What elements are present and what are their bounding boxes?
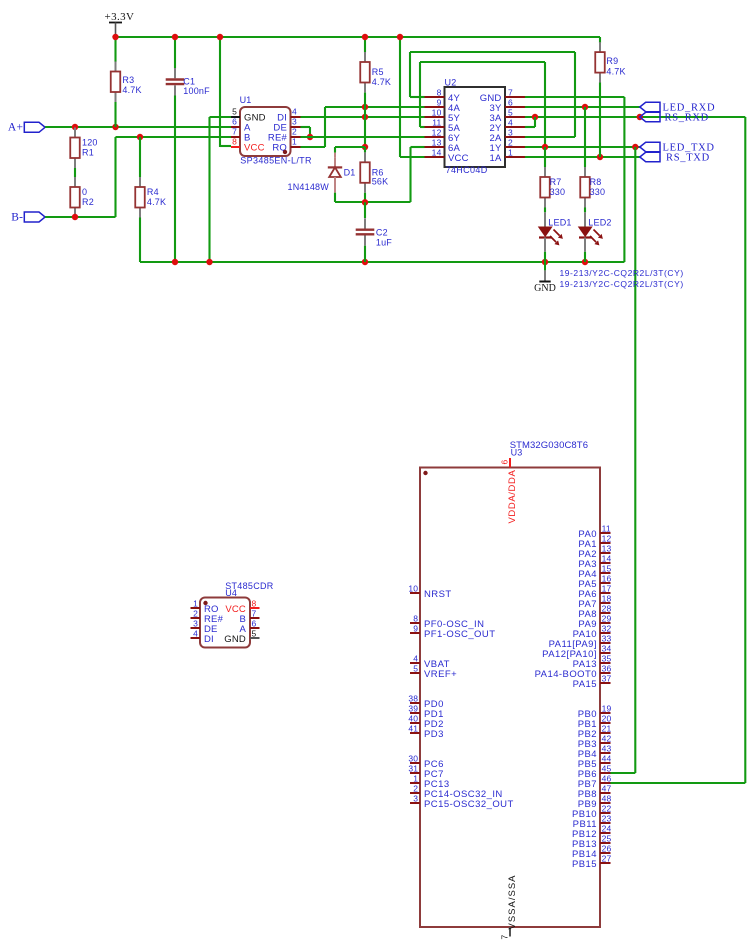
- svg-text:21: 21: [602, 723, 612, 733]
- global label RS_RXD: [640, 112, 709, 123]
- svg-text:5: 5: [413, 663, 418, 673]
- svg-text:4: 4: [193, 628, 198, 638]
- op-amp U1 SP3485EN-L/TR: [231, 95, 312, 165]
- wire LED_TXD drop: [634, 147, 636, 773]
- svg-text:45: 45: [602, 763, 612, 773]
- svg-text:35: 35: [602, 653, 612, 663]
- junction C1 ground: [172, 259, 178, 265]
- svg-text:1: 1: [413, 773, 418, 783]
- svg-text:0: 0: [82, 187, 87, 197]
- svg-text:PC15-OSC32_OUT: PC15-OSC32_OUT: [424, 799, 514, 810]
- svg-text:18: 18: [602, 593, 612, 603]
- svg-text:13: 13: [432, 138, 442, 148]
- svg-text:29: 29: [602, 613, 612, 623]
- svg-text:LED2: LED2: [588, 217, 611, 227]
- svg-text:RS_RXD: RS_RXD: [665, 113, 709, 124]
- junction LED2 ground: [582, 259, 588, 265]
- wire R4 bottom: [139, 218, 141, 263]
- svg-text:48: 48: [602, 793, 612, 803]
- wire D1 top lead: [334, 147, 336, 153]
- capacitor C1 100nF: [166, 68, 210, 96]
- svg-text:NRST: NRST: [424, 589, 452, 600]
- svg-text:1N4148W: 1N4148W: [288, 182, 330, 192]
- svg-text:6: 6: [252, 618, 257, 628]
- svg-text:30: 30: [408, 753, 418, 763]
- svg-text:23: 23: [602, 813, 612, 823]
- svg-text:37: 37: [602, 673, 612, 683]
- junction U1 VCC column: [217, 34, 223, 40]
- junction +3.3V: [112, 34, 118, 40]
- wire GND7 drop: [623, 97, 625, 262]
- power symbol +3.3V: [105, 11, 135, 37]
- ground: [534, 262, 556, 294]
- wire RC to 6A riser: [409, 147, 411, 202]
- LED LED1: [539, 212, 572, 252]
- svg-text:24: 24: [602, 823, 612, 833]
- junction R9 bottom: [597, 154, 603, 160]
- wire 2A row: [525, 136, 575, 138]
- svg-text:10: 10: [408, 583, 418, 593]
- IC U4 ST485CDR: [191, 581, 274, 647]
- junction LED_TXD tap: [632, 144, 638, 150]
- wire U1 VCC riser: [219, 37, 221, 147]
- svg-text:4.7K: 4.7K: [372, 77, 391, 87]
- svg-text:19-213/Y2C-CQ2R2L/3T(CY): 19-213/Y2C-CQ2R2L/3T(CY): [560, 279, 684, 289]
- wire R9 top: [599, 37, 601, 43]
- wire D1 branch: [335, 146, 365, 148]
- wire RQ out: [301, 146, 326, 148]
- svg-text:VDDA/DDA: VDDA/DDA: [507, 470, 518, 524]
- svg-text:3: 3: [413, 793, 418, 803]
- wire 1Y drop: [544, 62, 546, 147]
- wire 3A RS_RXD row: [525, 116, 745, 118]
- svg-text:19-213/Y2C-CQ2R2L/3T(CY): 19-213/Y2C-CQ2R2L/3T(CY): [560, 268, 684, 278]
- svg-text:40: 40: [408, 713, 418, 723]
- resistor R8 330: [580, 167, 605, 208]
- junction 2Y-3A: [532, 114, 538, 120]
- junction node 365-117: [362, 114, 368, 120]
- svg-text:25: 25: [602, 833, 612, 843]
- resistor R4 4.7K: [135, 177, 166, 218]
- svg-text:C2: C2: [376, 228, 388, 238]
- wire 4Y out: [410, 96, 425, 98]
- svg-text:6: 6: [500, 460, 510, 465]
- wire DE down link b: [309, 127, 311, 137]
- svg-text:GND: GND: [534, 283, 556, 294]
- wire 5A out: [420, 126, 425, 128]
- wire 5A top row: [420, 61, 545, 63]
- junction U2 VCC column: [397, 34, 403, 40]
- wire GND7 row: [525, 96, 624, 98]
- svg-text:8: 8: [232, 137, 237, 147]
- svg-text:4.7K: 4.7K: [606, 66, 625, 76]
- wire D1 bottom link: [334, 193, 336, 202]
- svg-text:VSSA/SSA: VSSA/SSA: [507, 875, 518, 930]
- svg-text:3: 3: [508, 128, 513, 138]
- wire R5 bottom lead: [364, 93, 366, 107]
- svg-text:15: 15: [602, 563, 612, 573]
- svg-text:R7: R7: [550, 177, 562, 187]
- svg-text:2: 2: [292, 127, 297, 137]
- svg-text:4: 4: [413, 653, 418, 663]
- global label LED_RXD: [640, 102, 715, 113]
- global label RS_TXD: [640, 152, 710, 163]
- svg-text:28: 28: [602, 603, 612, 613]
- svg-text:5: 5: [508, 108, 513, 118]
- wire 3Y LED_RXD row: [525, 106, 640, 108]
- svg-text:13: 13: [602, 543, 612, 553]
- svg-text:8: 8: [413, 613, 418, 623]
- junction R4 top: [137, 134, 143, 140]
- svg-text:PB15: PB15: [572, 859, 597, 870]
- svg-text:7: 7: [500, 935, 510, 940]
- svg-text:120: 120: [82, 137, 98, 147]
- svg-text:32: 32: [602, 623, 612, 633]
- wire 4Y riser: [409, 52, 411, 97]
- wire R5 top: [364, 37, 366, 52]
- wire A+ to U1 A: [45, 126, 231, 128]
- svg-text:VCC: VCC: [244, 143, 265, 154]
- svg-text:47: 47: [602, 783, 612, 793]
- wire 2A drop: [574, 52, 576, 137]
- wire 2Y link b: [534, 117, 536, 127]
- resistor R7 330: [540, 167, 565, 208]
- wire ground rail: [140, 261, 624, 263]
- junction R1 top: [72, 124, 78, 130]
- svg-text:R8: R8: [590, 177, 602, 187]
- capacitor C2 1uF: [356, 218, 393, 247]
- svg-text:RS_TXD: RS_TXD: [666, 153, 710, 164]
- wire 5A riser: [419, 62, 421, 127]
- wire U1 VCC stub link: [220, 145, 231, 147]
- wire B row to U1: [116, 136, 232, 138]
- svg-text:6: 6: [508, 98, 513, 108]
- svg-text:56K: 56K: [372, 176, 389, 186]
- wire R3 top: [114, 37, 116, 62]
- svg-text:R4: R4: [147, 187, 159, 197]
- svg-text:330: 330: [550, 187, 566, 197]
- svg-text:LED1: LED1: [548, 217, 571, 227]
- wire node column: [364, 107, 366, 147]
- svg-text:5: 5: [232, 107, 237, 117]
- svg-text:11: 11: [432, 118, 441, 128]
- svg-text:27: 27: [602, 853, 612, 863]
- svg-text:7: 7: [232, 127, 237, 137]
- svg-text:DI: DI: [204, 634, 214, 645]
- svg-text:42: 42: [602, 733, 612, 743]
- svg-text:U1: U1: [240, 95, 252, 105]
- svg-text:33: 33: [602, 633, 612, 643]
- svg-text:74HC04D: 74HC04D: [446, 165, 488, 175]
- svg-text:7: 7: [252, 608, 257, 618]
- IC U2 74HC04D: [425, 77, 526, 175]
- svg-text:39: 39: [408, 703, 418, 713]
- svg-text:U4: U4: [225, 588, 237, 598]
- wire RC node row: [335, 201, 411, 203]
- svg-text:41: 41: [408, 723, 418, 733]
- svg-text:R1: R1: [82, 147, 94, 157]
- wire R7-LED1 link: [544, 208, 546, 213]
- wire C1 top: [174, 37, 176, 68]
- svg-text:A+: A+: [8, 122, 23, 134]
- resistor R3 4.7K: [111, 62, 142, 103]
- wire R4 top lead: [139, 137, 141, 177]
- svg-text:8: 8: [437, 88, 442, 98]
- svg-text:330: 330: [590, 187, 606, 197]
- svg-text:31: 31: [408, 763, 418, 773]
- svg-text:20: 20: [602, 713, 612, 723]
- global label B-: [11, 212, 45, 224]
- svg-text:U3: U3: [511, 447, 523, 457]
- junction R2 bottom: [72, 214, 78, 220]
- junction R3 bottom: [112, 124, 118, 130]
- svg-text:4.7K: 4.7K: [122, 85, 141, 95]
- junction RC node: [362, 199, 368, 205]
- svg-text:9: 9: [413, 623, 418, 633]
- svg-text:10: 10: [432, 108, 442, 118]
- wire 1Y LED_TXD row: [525, 146, 640, 148]
- wire LED1 cathode: [544, 252, 546, 262]
- junction R8 top: [582, 104, 588, 110]
- svg-text:22: 22: [602, 803, 612, 813]
- wire R3 bottom: [114, 102, 116, 127]
- svg-text:PD3: PD3: [424, 729, 444, 740]
- svg-text:9: 9: [437, 98, 442, 108]
- svg-text:R9: R9: [606, 56, 618, 66]
- svg-text:1A: 1A: [489, 153, 501, 164]
- junction C2 ground: [362, 259, 368, 265]
- diode D1 1N4148W: [288, 153, 356, 193]
- svg-text:3: 3: [292, 117, 297, 127]
- LED LED2: [579, 212, 612, 252]
- wire R1-R2 link: [74, 168, 76, 177]
- wire 1A RS_TXD row: [525, 156, 640, 158]
- svg-text:19: 19: [602, 703, 612, 713]
- wire U2 VCC riser: [399, 37, 401, 157]
- svg-text:11: 11: [602, 523, 611, 533]
- svg-text:12: 12: [602, 533, 612, 543]
- wire C2 top: [364, 202, 366, 218]
- svg-text:B-: B-: [11, 212, 23, 224]
- wire PB6 row: [611, 772, 636, 774]
- svg-text:2: 2: [413, 783, 418, 793]
- wire 2Y link a: [525, 126, 535, 128]
- wire LED2 cathode: [584, 252, 586, 262]
- wire U1 GND link: [210, 116, 232, 118]
- svg-text:4.7K: 4.7K: [147, 197, 166, 207]
- junction D1 top: [362, 144, 368, 150]
- svg-text:6: 6: [232, 117, 237, 127]
- resistor R2 0: [70, 177, 94, 218]
- svg-text:SP3485EN-L/TR: SP3485EN-L/TR: [240, 155, 312, 165]
- junction U1 GND ground: [206, 259, 212, 265]
- resistor R5 4.7K: [360, 52, 391, 93]
- svg-text:14: 14: [602, 553, 612, 563]
- svg-text:PF1-OSC_OUT: PF1-OSC_OUT: [424, 629, 495, 640]
- svg-text:8: 8: [252, 598, 257, 608]
- svg-text:26: 26: [602, 843, 612, 853]
- wire B- row: [45, 216, 115, 218]
- junction DE-RE#: [307, 134, 313, 140]
- junction R5 top: [362, 34, 368, 40]
- svg-text:1: 1: [292, 137, 297, 147]
- svg-text:R2: R2: [82, 197, 94, 207]
- wire RS_RXD drop: [744, 117, 746, 783]
- wire R9 bottom lead: [599, 82, 601, 157]
- wire C1 bottom: [174, 96, 176, 263]
- svg-text:GND: GND: [224, 634, 246, 645]
- svg-text:PA15: PA15: [573, 679, 597, 690]
- svg-text:U2: U2: [445, 77, 457, 87]
- global label A+: [8, 122, 45, 134]
- wire RE# to 6Y row: [301, 136, 425, 138]
- wire R6 bottom lead: [364, 193, 366, 202]
- wire U1 GND drop: [208, 117, 210, 262]
- wire RC to 6A link: [411, 146, 425, 148]
- svg-text:D1: D1: [344, 167, 356, 177]
- resistor R9 4.7K: [595, 42, 625, 83]
- svg-text:VCC: VCC: [448, 153, 469, 164]
- junction R7 top: [542, 144, 548, 150]
- svg-text:5: 5: [252, 628, 257, 638]
- junction R5 bottom: [362, 104, 368, 110]
- svg-text:R5: R5: [372, 67, 384, 77]
- svg-text:1: 1: [508, 148, 513, 158]
- svg-text:4: 4: [508, 118, 513, 128]
- junction RS_RXD tip: [637, 114, 643, 120]
- svg-text:1uF: 1uF: [376, 238, 392, 248]
- svg-text:1: 1: [193, 598, 198, 608]
- svg-text:2: 2: [508, 138, 513, 148]
- wire 4Y top row: [410, 51, 575, 53]
- svg-text:2: 2: [193, 608, 198, 618]
- svg-text:14: 14: [432, 148, 442, 158]
- wire U2 VCC link: [400, 156, 425, 158]
- svg-text:44: 44: [602, 753, 612, 763]
- wire RO to 4A row: [325, 106, 425, 108]
- svg-text:38: 38: [408, 693, 418, 703]
- resistor R6 56K: [360, 152, 388, 193]
- svg-text:100nF: 100nF: [183, 86, 210, 96]
- svg-text:46: 46: [602, 773, 612, 783]
- svg-text:17: 17: [602, 583, 612, 593]
- svg-text:VREF+: VREF+: [424, 669, 457, 680]
- junction LED1 ground: [542, 259, 548, 265]
- wire DI to 5Y row: [301, 116, 425, 118]
- junction C1 top: [172, 34, 178, 40]
- wire C2 bottom: [364, 246, 366, 262]
- svg-text:12: 12: [432, 128, 442, 138]
- svg-text:+3.3V: +3.3V: [105, 11, 135, 23]
- wire R7 lead top: [544, 147, 546, 167]
- wire R8 lead top: [584, 107, 586, 167]
- wire DE down link a: [301, 126, 311, 128]
- wire RQ riser: [324, 107, 326, 147]
- svg-text:3: 3: [193, 618, 198, 628]
- svg-text:43: 43: [602, 743, 612, 753]
- global label LED_TXD: [640, 142, 715, 153]
- svg-text:34: 34: [602, 643, 612, 653]
- resistor R1 120: [70, 128, 97, 169]
- svg-text:36: 36: [602, 663, 612, 673]
- svg-text:4: 4: [292, 107, 297, 117]
- wire +3.3V rail: [116, 36, 601, 38]
- MCU U3 STM32G030C8T6: [408, 440, 611, 940]
- svg-text:7: 7: [508, 88, 513, 98]
- svg-text:16: 16: [602, 573, 612, 583]
- wire B riser: [114, 137, 116, 217]
- wire PB7 row: [611, 782, 746, 784]
- wire R8-LED2 link: [584, 208, 586, 213]
- wire R6 top lead: [364, 147, 366, 152]
- svg-text:R3: R3: [122, 75, 134, 85]
